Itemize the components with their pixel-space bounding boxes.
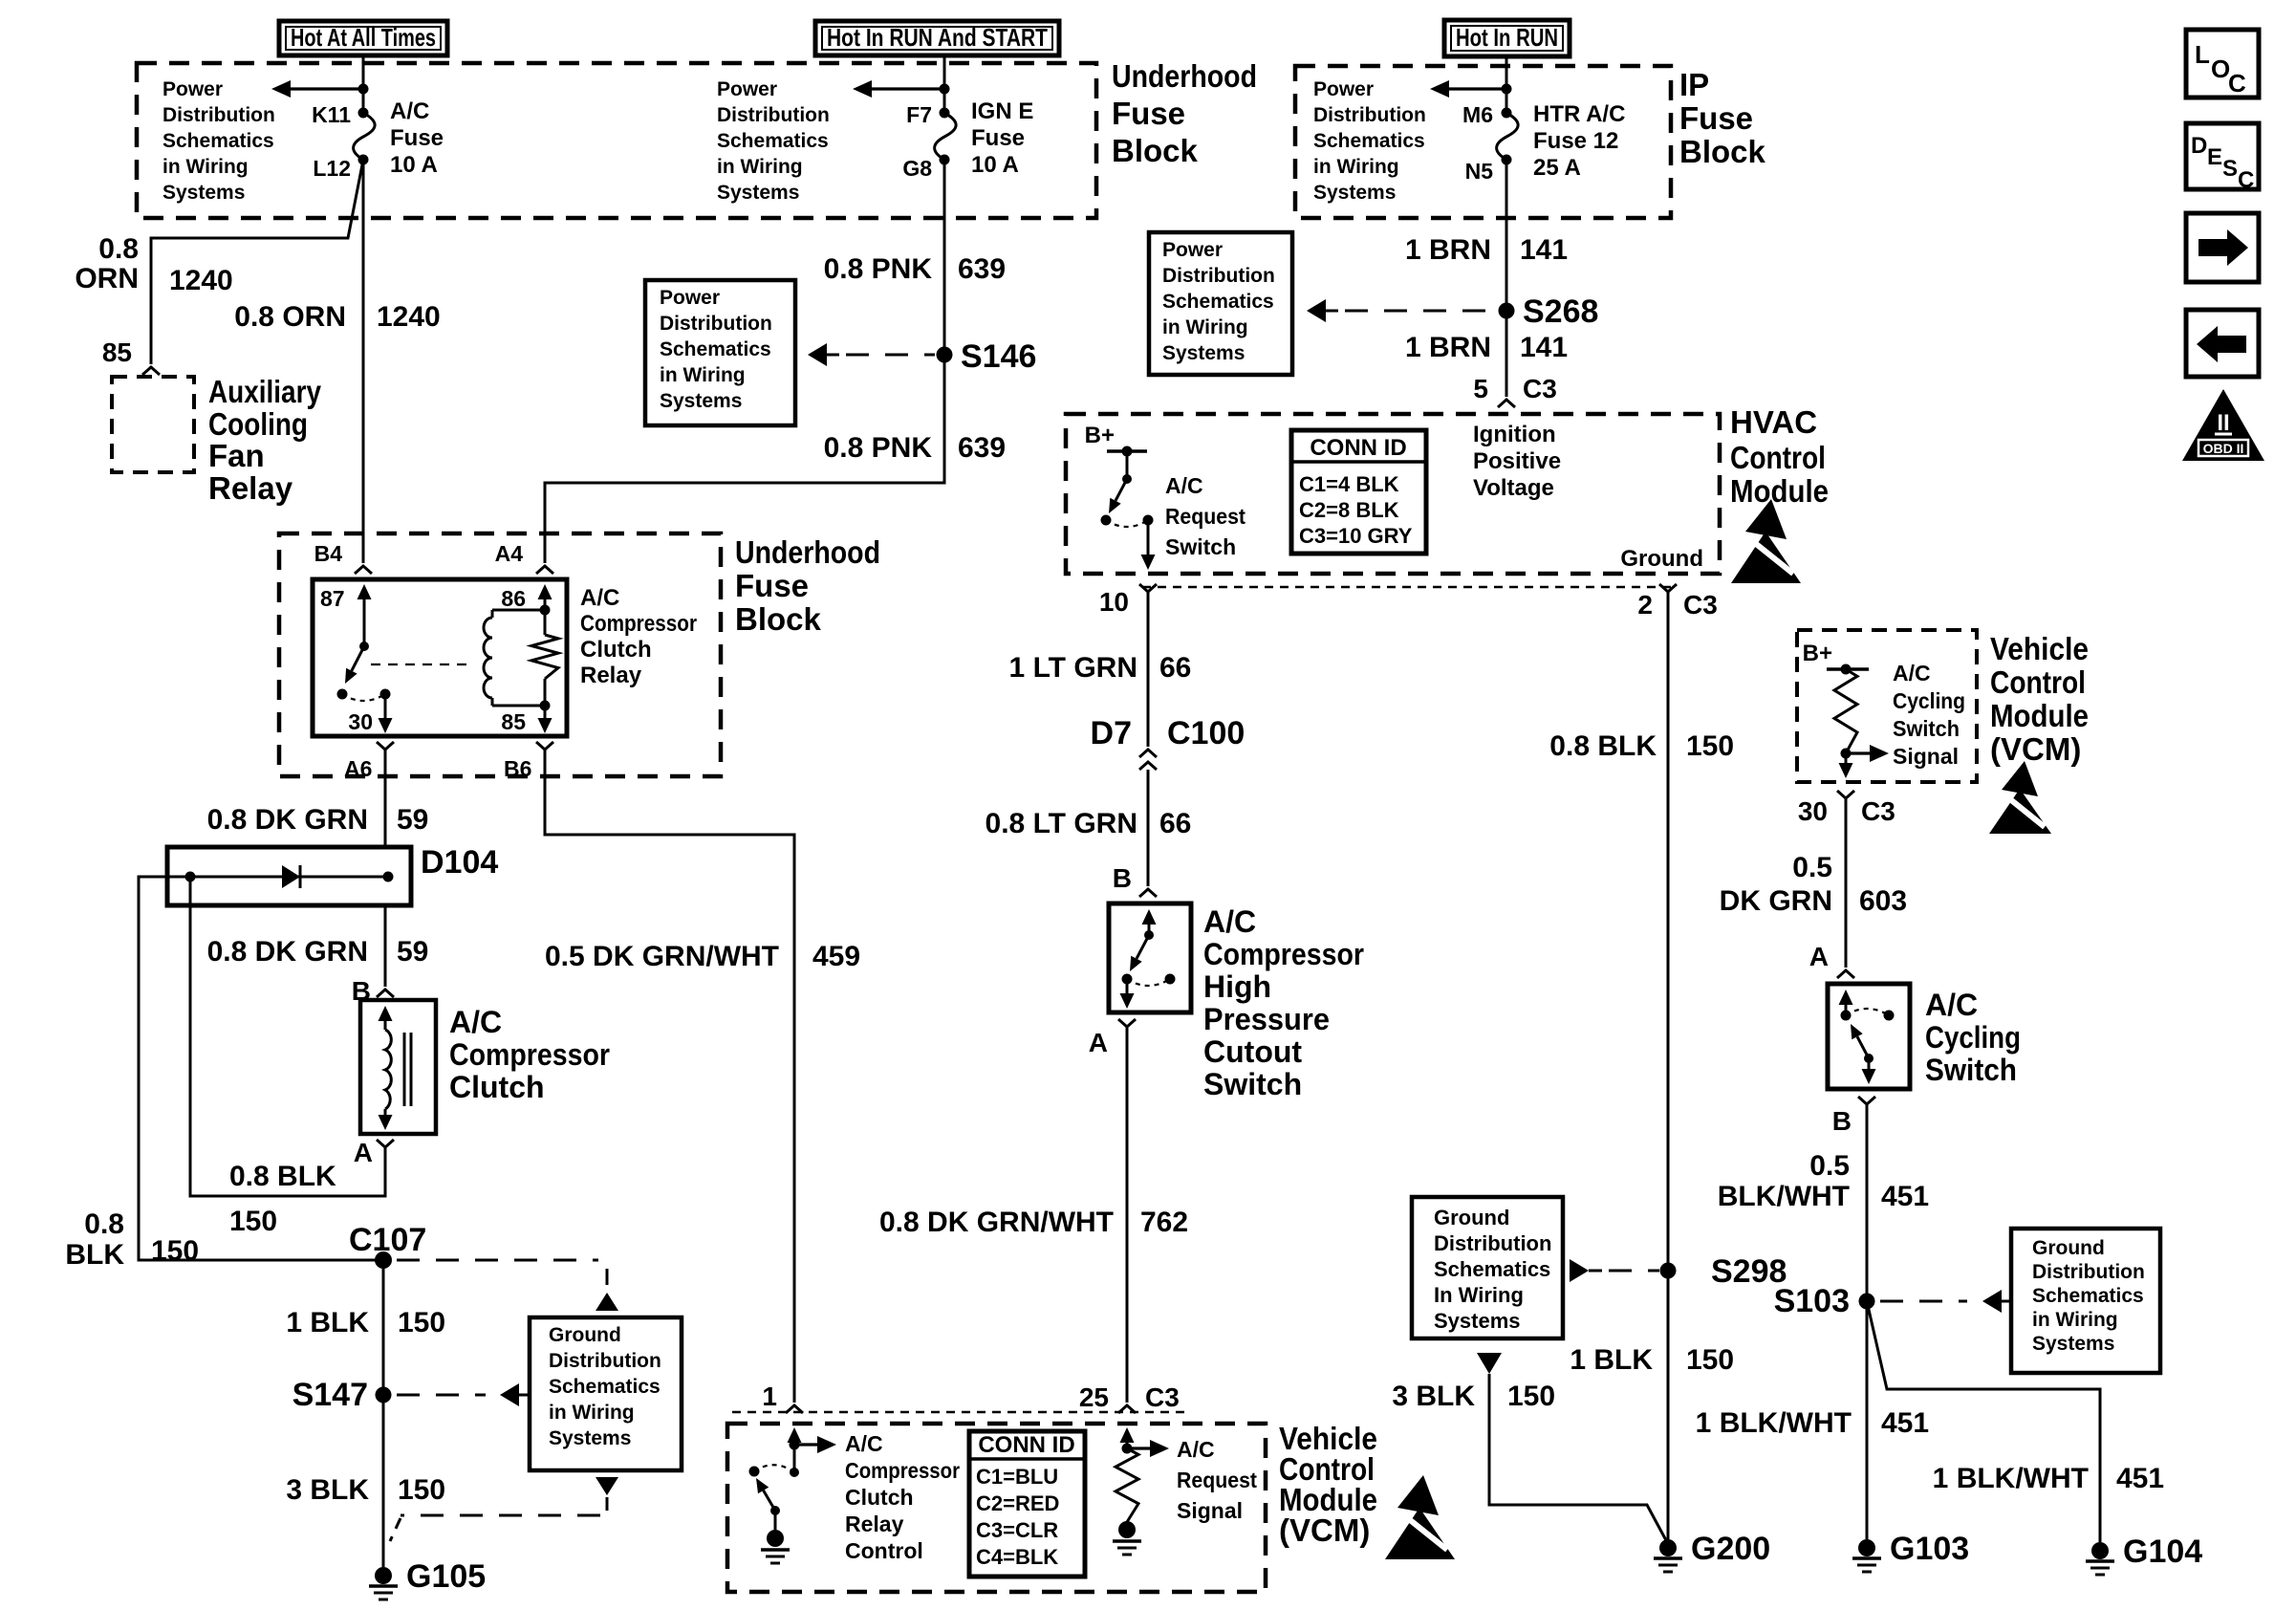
cycling switch pin B label: [1832, 1106, 1852, 1136]
relay pin 30 arrow: [379, 694, 393, 733]
svg-text:Ground: Ground: [2032, 1237, 2105, 1259]
svg-text:CONN ID: CONN ID: [1310, 435, 1406, 461]
ESD sensitive symbol (VCM right): [1989, 761, 2051, 834]
wire: 0.8 BLK 150 from clutch A up through D104: [190, 877, 385, 1196]
VCM right B+ terminal bar: [1827, 664, 1869, 675]
svg-text:Auxiliary: Auxiliary: [208, 374, 322, 409]
svg-text:Distribution: Distribution: [2032, 1261, 2145, 1283]
cycling switch dashed arc: [1846, 1009, 1889, 1015]
splice S298 dot: [1660, 1263, 1677, 1279]
svg-text:Block: Block: [735, 601, 822, 637]
fuse F2 IGN E Fuse 10A symbol: [935, 108, 957, 165]
wire: 1 LT GRN 66 from HVAC pin 10 to C100: [1147, 592, 1150, 747]
svg-text:150: 150: [398, 1474, 445, 1506]
svg-text:0.8 LT GRN: 0.8 LT GRN: [986, 808, 1137, 839]
svg-text:Distribution: Distribution: [1313, 104, 1426, 126]
circuit number 451 (G104): [2116, 1463, 2164, 1494]
svg-text:Control: Control: [845, 1538, 923, 1563]
svg-text:25: 25: [1079, 1382, 1109, 1412]
wire: 0.5 DK GRN/WHT 459 from relay B6 to VCM pin 1: [545, 750, 794, 1403]
HTR A/C Fuse 12 25 A value label: [1533, 101, 1625, 181]
connector chevron at cycling switch pin B: [1858, 1097, 1875, 1104]
VCM clutch relay control feed: [790, 1445, 799, 1477]
svg-text:0.5: 0.5: [1809, 1150, 1850, 1182]
svg-text:0.8: 0.8: [84, 1208, 124, 1240]
svg-text:Clutch: Clutch: [580, 637, 652, 663]
power feed label: Hot In RUN: [1444, 20, 1570, 56]
relay switch dashed arc: [342, 694, 385, 701]
svg-text:Distribution: Distribution: [660, 313, 772, 335]
VCM relay control pivot dot: [770, 1506, 780, 1515]
svg-text:C: C: [2238, 167, 2254, 193]
relay dashed actuation line: [371, 664, 471, 665]
svg-text:C107: C107: [349, 1222, 426, 1258]
svg-text:A/C: A/C: [449, 1005, 502, 1039]
arrow to power distribution (A/C fuse): [271, 80, 363, 98]
cutout pin B label: [1113, 863, 1132, 893]
relay coil L1: [484, 610, 545, 706]
CONN ID table (VCM): [969, 1431, 1085, 1577]
wire: 0.8 DK GRN 59 from D104 to clutch pin B: [384, 905, 387, 987]
wire: 0.5 BLK/WHT 451 from cycling switch B to S103: [1866, 1104, 1869, 1301]
wire: battery feed into A/C fuse: [362, 55, 365, 113]
connector chevron at aux relay pin 85: [142, 367, 160, 375]
connector C3 label at VCM pin 25: [1145, 1382, 1180, 1412]
wire label 0.8 DK GRN (upper): [207, 804, 368, 836]
svg-text:762: 762: [1140, 1207, 1188, 1238]
svg-text:Power: Power: [660, 287, 720, 309]
svg-text:C: C: [2228, 69, 2246, 98]
Power Distribution Schematics box (right): [1149, 232, 1292, 375]
relay coil junction dot 85: [540, 701, 551, 711]
svg-text:A4: A4: [495, 541, 524, 566]
arrow to power distribution (HTR A/C fuse): [1430, 80, 1506, 98]
svg-text:1 BLK: 1 BLK: [1570, 1344, 1653, 1376]
ground G103: [1852, 1531, 1969, 1572]
A/C Compressor High Pressure Cutout Switch box: [1109, 903, 1191, 1012]
svg-text:Relay: Relay: [845, 1512, 904, 1536]
A/C Cycling Switch Signal label: [1893, 661, 1965, 769]
svg-text:141: 141: [1520, 332, 1568, 363]
wire label 1 BLK/WHT (G103): [1696, 1407, 1852, 1439]
circuit number 1240 (main): [377, 301, 441, 333]
pin G8 label: [902, 156, 932, 181]
Auxiliary Cooling Fan Relay label: [208, 374, 322, 506]
sidebar forward arrow icon: [2186, 213, 2259, 282]
connector chevron at HVAC pin 5: [1498, 400, 1515, 407]
svg-text:Clutch: Clutch: [845, 1485, 914, 1510]
svg-text:in Wiring: in Wiring: [2032, 1309, 2118, 1331]
relay pin 30 label: [348, 709, 373, 734]
HVAC B+ label: [1085, 423, 1115, 448]
arrow to power distribution (IGN E fuse): [853, 80, 944, 98]
svg-text:Ground: Ground: [1434, 1206, 1509, 1229]
wire label 0.5 DK GRN/WHT: [545, 941, 779, 972]
svg-text:G8: G8: [902, 156, 932, 181]
connector chevron at cutout pin B: [1139, 889, 1157, 897]
svg-text:0.8 PNK: 0.8 PNK: [824, 253, 933, 285]
wire label 0.8 ORN (main): [234, 301, 346, 333]
circuit number 141 (lower): [1520, 332, 1568, 363]
A/C Compressor Clutch Relay Control label: [845, 1431, 960, 1563]
svg-text:D: D: [2191, 133, 2207, 159]
svg-text:F7: F7: [906, 102, 932, 127]
connector chevron at VCM pin 30: [1837, 791, 1854, 798]
VCM relay control ground lead: [774, 1511, 777, 1530]
junction dot at HTR A/C fuse feed: [1502, 84, 1512, 95]
svg-text:B+: B+: [1085, 423, 1115, 448]
circuit number 150 (G200): [1686, 1344, 1734, 1376]
pin A4 label: [495, 541, 524, 566]
cutout switch contact dots: [1122, 974, 1176, 985]
wire label 0.8 DK GRN (lower): [207, 936, 368, 968]
sidebar LOC icon: [2186, 30, 2259, 98]
svg-text:L: L: [2195, 40, 2210, 69]
splice S268 dot: [1499, 303, 1515, 319]
wire: run/start feed into IGN E fuse: [943, 55, 946, 113]
svg-text:Request: Request: [1165, 504, 1245, 529]
svg-text:Hot At All Times: Hot At All Times: [291, 23, 436, 52]
circuit number 762: [1140, 1207, 1188, 1238]
clutch pin B label: [352, 976, 371, 1006]
svg-text:Fuse: Fuse: [1112, 96, 1185, 131]
diode D104 anode dot: [185, 872, 196, 882]
connector C3 label at HVAC pin 2: [1683, 590, 1718, 620]
svg-text:0.8: 0.8: [98, 233, 139, 265]
svg-text:C3: C3: [1523, 374, 1557, 403]
svg-text:1: 1: [762, 1382, 777, 1411]
dashed reference from ground distribution box to G105: [390, 1477, 618, 1541]
HVAC Control Module dashed outline: [1066, 414, 1720, 574]
svg-text:Cutout: Cutout: [1203, 1034, 1302, 1069]
pin B4 label: [314, 541, 343, 566]
svg-text:87: 87: [320, 586, 345, 611]
circuit number 141 (upper): [1520, 234, 1568, 266]
dashed reference arrow from S103 to ground distribution box (right): [1880, 1290, 2011, 1313]
VCM relay control switch blade: [756, 1478, 775, 1511]
splice S147 label: [292, 1377, 368, 1413]
VCM clutch relay control arrow right: [794, 1436, 836, 1453]
circuit number 150 (middle 3 BLK): [1507, 1381, 1555, 1412]
svg-text:Cooling: Cooling: [208, 406, 308, 442]
relay pin 87 arrow: [357, 584, 372, 646]
pin A6 label: [344, 756, 372, 781]
svg-text:Schematics: Schematics: [2032, 1285, 2144, 1307]
svg-text:85: 85: [501, 709, 526, 734]
VCM right B+ label: [1803, 641, 1832, 666]
ground G104: [2086, 1534, 2202, 1575]
svg-text:Schematics: Schematics: [660, 338, 771, 360]
svg-text:Systems: Systems: [1162, 342, 1245, 364]
svg-text:N5: N5: [1465, 159, 1494, 184]
svg-text:S147: S147: [292, 1377, 368, 1413]
connector chevron at HVAC pin 2: [1659, 584, 1677, 592]
cutout switch input arrow: [1142, 909, 1157, 935]
svg-text:451: 451: [2116, 1463, 2164, 1494]
connector chevron at VCM pin 1: [786, 1405, 803, 1413]
relay switch contact dot (30 side): [337, 689, 348, 700]
svg-text:150: 150: [1686, 730, 1734, 762]
Underhood Fuse Block label: [1112, 58, 1257, 168]
A/C Request Switch label: [1165, 473, 1245, 559]
svg-text:Control: Control: [1990, 664, 2086, 700]
svg-text:Systems: Systems: [549, 1427, 631, 1449]
circuit number 59 (upper): [397, 804, 428, 836]
wire label 0.8 PNK (upper): [824, 253, 933, 285]
svg-text:B: B: [1113, 863, 1132, 893]
ESD sensitive symbol (HVAC): [1731, 499, 1801, 583]
Ignition Positive Voltage label: [1473, 422, 1561, 501]
svg-text:B: B: [1832, 1106, 1852, 1136]
svg-text:Block: Block: [1679, 134, 1766, 169]
svg-text:Power: Power: [1313, 78, 1374, 100]
diode D104 internal wire: [190, 876, 388, 879]
junction dot at A/C fuse feed: [358, 84, 369, 95]
HVAC A/C request switch blade: [1109, 479, 1127, 513]
sidebar DESC icon: [2186, 123, 2259, 193]
wire label 0.5 DK GRN: [1720, 852, 1832, 917]
ground G200: [1654, 1531, 1770, 1572]
svg-text:59: 59: [397, 804, 428, 836]
circuit number 66 (upper): [1159, 652, 1191, 684]
Power Distribution Schematics text (right): [1162, 239, 1275, 364]
svg-text:1240: 1240: [377, 301, 441, 333]
connector chevron at relay pin B4: [355, 566, 372, 574]
HVAC connector C3 dashed line: [1142, 586, 1678, 589]
wire label 3 BLK (middle): [1392, 1381, 1475, 1412]
svg-text:0.8 BLK: 0.8 BLK: [229, 1161, 336, 1192]
dashed reference arrow from S268 to power distribution box: [1307, 299, 1497, 322]
wire: 0.8 PNK 639 from IGN E fuse to relay pin A4: [545, 160, 944, 563]
svg-text:Module: Module: [1990, 698, 2089, 733]
connector D7 label: [1091, 715, 1132, 751]
OBD II symbol: [2182, 389, 2264, 461]
svg-text:Fuse: Fuse: [735, 568, 809, 603]
Ground Distribution Schematics box (left): [530, 1317, 682, 1470]
VCM request signal arrow right: [1127, 1440, 1169, 1457]
svg-text:Distribution: Distribution: [162, 104, 275, 126]
svg-text:150: 150: [398, 1307, 445, 1338]
svg-text:Voltage: Voltage: [1473, 475, 1554, 501]
svg-text:Vehicle: Vehicle: [1990, 631, 2089, 666]
clutch plates: [404, 1033, 411, 1106]
IP Fuse Block label: [1679, 67, 1766, 169]
svg-text:Request: Request: [1177, 1468, 1257, 1492]
svg-text:(VCM): (VCM): [1990, 731, 2081, 767]
svg-text:1 BLK/WHT: 1 BLK/WHT: [1696, 1407, 1852, 1439]
A/C Cycling Switch label: [1925, 988, 2021, 1087]
cycling switch blade: [1851, 1024, 1869, 1058]
svg-text:Fuse: Fuse: [1679, 100, 1753, 136]
circuit number 459: [812, 941, 860, 972]
clutch exit arrow: [379, 1109, 393, 1130]
svg-text:639: 639: [958, 253, 1006, 285]
svg-text:IP: IP: [1679, 67, 1709, 102]
svg-text:2: 2: [1637, 590, 1653, 620]
svg-text:59: 59: [397, 936, 428, 968]
A/C Compressor High Pressure Cutout Switch label: [1203, 904, 1364, 1101]
wire label 1 BLK: [286, 1307, 369, 1338]
svg-text:G105: G105: [406, 1558, 486, 1595]
cutout switch output arrow: [1120, 979, 1135, 1009]
svg-text:High: High: [1203, 969, 1271, 1004]
VCM pullup resistor R2: [1834, 669, 1857, 753]
svg-text:0.5 DK GRN/WHT: 0.5 DK GRN/WHT: [545, 941, 779, 972]
svg-text:Switch: Switch: [1893, 716, 1960, 741]
svg-text:in Wiring: in Wiring: [1162, 316, 1248, 338]
wire: 0.8 DK GRN 59 from relay A6 to diode D104: [384, 750, 387, 847]
svg-text:G104: G104: [2123, 1534, 2202, 1570]
cycling switch input arrow: [1839, 990, 1853, 1015]
svg-text:Systems: Systems: [162, 182, 245, 204]
Vehicle Control Module (VCM) label (right): [1990, 631, 2089, 767]
cutout switch pivot dot: [1144, 930, 1154, 940]
wire label 0.5 BLK/WHT: [1718, 1150, 1850, 1212]
pin L12 label: [313, 156, 351, 181]
wire: run feed into HTR A/C fuse: [1505, 55, 1508, 113]
svg-text:BLK: BLK: [65, 1239, 124, 1271]
svg-text:DK GRN: DK GRN: [1720, 885, 1832, 917]
svg-text:C100: C100: [1167, 715, 1245, 751]
CONN ID table (HVAC): [1291, 430, 1426, 554]
pin 10 label: [1099, 587, 1129, 617]
svg-text:603: 603: [1859, 885, 1907, 917]
svg-text:In Wiring: In Wiring: [1434, 1283, 1524, 1307]
svg-text:Power: Power: [1162, 239, 1223, 261]
svg-text:B6: B6: [504, 756, 531, 781]
svg-text:A/C: A/C: [1177, 1437, 1215, 1462]
svg-text:Schematics: Schematics: [162, 130, 274, 152]
relay K1 A/C Compressor Clutch Relay box: [313, 579, 567, 736]
svg-text:1 BLK: 1 BLK: [286, 1307, 369, 1338]
splice S146 dot: [937, 347, 953, 363]
connector C100 label: [1167, 715, 1245, 751]
svg-text:Schematics: Schematics: [717, 130, 829, 152]
Ground Distribution Schematics box (middle): [1412, 1197, 1563, 1338]
wire label 0.8 LT GRN: [986, 808, 1137, 839]
svg-text:in Wiring: in Wiring: [1313, 156, 1399, 178]
VCM pin 1 label: [762, 1382, 777, 1411]
Power Distribution Schematics box (middle): [645, 280, 795, 425]
pin 2 label: [1637, 590, 1653, 620]
Underhood Fuse Block (top) dashed outline: [137, 63, 1096, 218]
svg-text:C3: C3: [1683, 590, 1718, 620]
svg-text:Fan: Fan: [208, 438, 265, 473]
svg-text:451: 451: [1881, 1407, 1929, 1439]
svg-text:0.8 DK GRN/WHT: 0.8 DK GRN/WHT: [879, 1207, 1114, 1238]
svg-text:C3: C3: [1145, 1382, 1180, 1412]
connector chevron at clutch pin A: [377, 1140, 394, 1147]
svg-text:1 BLK/WHT: 1 BLK/WHT: [1933, 1463, 2089, 1494]
svg-text:Ignition: Ignition: [1473, 422, 1556, 447]
svg-text:C4=BLK: C4=BLK: [976, 1545, 1058, 1569]
svg-text:Systems: Systems: [717, 182, 799, 204]
Ground Distribution Schematics text (middle): [1434, 1206, 1551, 1333]
pin 30 label (VCM): [1798, 796, 1828, 826]
svg-text:II: II: [2217, 410, 2229, 436]
Ground Distribution Schematics text (left): [549, 1324, 661, 1449]
Auxiliary Cooling Fan Relay dashed outline: [112, 377, 194, 472]
pin K11 label: [312, 102, 351, 127]
wire label 3 BLK: [286, 1474, 369, 1506]
svg-text:Module: Module: [1730, 473, 1829, 509]
wire: 1 BRN 141 from HTR A/C fuse to HVAC module: [1505, 160, 1508, 397]
svg-text:S: S: [2222, 156, 2238, 182]
svg-text:in Wiring: in Wiring: [162, 156, 249, 178]
svg-text:150: 150: [151, 1235, 199, 1267]
HVAC B+ terminal bar: [1107, 446, 1147, 457]
svg-text:G200: G200: [1691, 1531, 1770, 1567]
connector chevron at relay pin A6: [377, 742, 394, 750]
svg-text:Fuse: Fuse: [971, 125, 1025, 151]
HVAC Control Module label: [1730, 404, 1829, 509]
svg-text:66: 66: [1159, 808, 1191, 839]
svg-text:10 A: 10 A: [390, 152, 438, 178]
IP Fuse Block dashed outline: [1295, 66, 1671, 218]
svg-text:A: A: [1809, 942, 1829, 971]
relay pin 86 wire segment: [544, 610, 547, 635]
circuit number 150 (below): [229, 1206, 277, 1237]
wire: 0.8 BLK 150 from HVAC pin 2 to G200: [1667, 592, 1670, 1539]
Power Distribution Schematics reference text (HTR A/C fuse): [1313, 78, 1426, 204]
svg-text:A/C: A/C: [1893, 661, 1931, 685]
clutch pin A label: [354, 1138, 373, 1167]
A/C Compressor Clutch box: [360, 1000, 436, 1134]
svg-text:Hot In RUN: Hot In RUN: [1456, 23, 1558, 52]
power feed label: Hot At All Times: [279, 21, 447, 55]
svg-text:Schematics: Schematics: [1162, 291, 1274, 313]
svg-text:in Wiring: in Wiring: [660, 364, 746, 386]
svg-text:5: 5: [1473, 374, 1488, 403]
svg-text:Compressor: Compressor: [845, 1458, 960, 1483]
svg-text:C3=CLR: C3=CLR: [976, 1518, 1058, 1542]
circuit number 451 (upper): [1881, 1181, 1929, 1212]
svg-text:C2=8 BLK: C2=8 BLK: [1299, 498, 1399, 522]
svg-text:Positive: Positive: [1473, 448, 1561, 474]
svg-text:1 BRN: 1 BRN: [1405, 332, 1491, 363]
wire label 1 BRN (lower): [1405, 332, 1491, 363]
VCM request signal resistor R3: [1116, 1448, 1138, 1522]
svg-text:0.8 PNK: 0.8 PNK: [824, 432, 933, 464]
svg-text:L12: L12: [313, 156, 351, 181]
relay switch blade: [345, 646, 364, 684]
arrow from ground distribution box (middle) down: [1477, 1353, 1502, 1374]
connector C3 label at VCM pin 30: [1861, 796, 1895, 826]
dashed reference arrow from S147 to ground distribution box: [397, 1383, 530, 1406]
svg-text:BLK/WHT: BLK/WHT: [1718, 1181, 1850, 1212]
connector chevron at clutch pin B: [377, 990, 394, 997]
svg-text:Schematics: Schematics: [1434, 1257, 1550, 1281]
svg-text:Distribution: Distribution: [1162, 265, 1275, 287]
splice S146 label: [961, 338, 1036, 375]
svg-text:Systems: Systems: [660, 390, 742, 412]
clutch coil L2: [385, 1030, 391, 1109]
Vehicle Control Module dashed outline (bottom): [727, 1424, 1266, 1592]
wire label 0.8 ORN (left): [75, 233, 139, 294]
splice S103 label: [1774, 1283, 1850, 1319]
wire: 0.5 DK GRN 603 from VCM 30 to cycling switch A: [1845, 798, 1848, 968]
pin F7 label: [906, 102, 932, 127]
ground G105: [369, 1558, 486, 1599]
diode D104 box: [167, 847, 411, 905]
cycling switch contact dots: [1841, 1011, 1895, 1021]
svg-text:Cycling: Cycling: [1893, 688, 1965, 713]
svg-text:Signal: Signal: [1177, 1498, 1243, 1523]
svg-text:Systems: Systems: [2032, 1333, 2114, 1355]
VCM cycling signal arrow: [1846, 745, 1889, 762]
power feed label: Hot In RUN And START: [815, 21, 1059, 55]
wire label 1 BLK/WHT (G104): [1933, 1463, 2089, 1494]
